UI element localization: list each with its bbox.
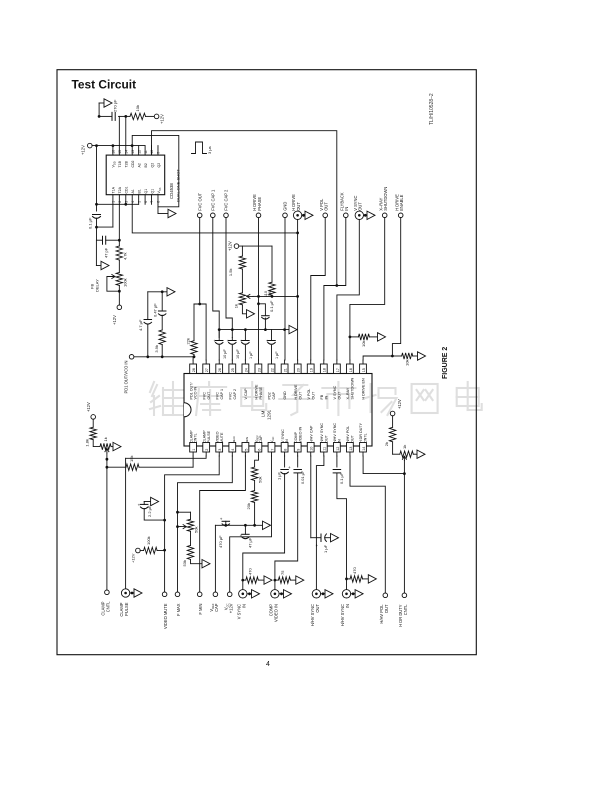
svg-text:OUT: OUT: [358, 202, 363, 211]
svg-text:CD4538: CD4538: [169, 183, 174, 199]
svg-text:5: 5: [244, 449, 248, 451]
svg-text:+12V: +12V: [81, 145, 86, 155]
svg-text:6: 6: [257, 449, 261, 451]
svg-text:4: 4: [231, 449, 235, 451]
svg-text:1 μF: 1 μF: [323, 544, 328, 553]
svg-text:H/HV SYNC: H/HV SYNC: [320, 423, 324, 443]
svg-text:470 μF: 470 μF: [218, 535, 223, 548]
svg-text:FVC CAP 2: FVC CAP 2: [224, 189, 229, 211]
terminal H/HV SYNC OUT: [312, 590, 320, 598]
svg-text:25: 25: [231, 368, 235, 372]
svg-text:OUT: OUT: [337, 391, 341, 400]
svg-text:3.9k: 3.9k: [154, 345, 159, 353]
probe triangle (timing node): [98, 103, 100, 116]
wire pin 9 COMP VIDEO IN upper: [297, 456, 299, 467]
capacitor 0.1 uF (H/HV SYNC IN): [333, 469, 341, 471]
wire H DRIVE OUT to pin 20: [297, 220, 299, 361]
svg-text:FVC OUT: FVC OUT: [197, 192, 202, 210]
svg-text:10k: 10k: [135, 105, 140, 111]
pulse waveform 3 us: [192, 142, 207, 154]
terminal X–RAY SHUTDOWN: [382, 213, 387, 218]
svg-text:1 μF: 1 μF: [275, 351, 279, 359]
wire CD4538 pin 2 to 47pF node: [118, 204, 120, 240]
capacitor 10 uF (pin 25): [231, 338, 233, 341]
wire clamp wiper node: [106, 459, 108, 467]
svg-text:+: +: [214, 339, 217, 344]
svg-text:13: 13: [131, 150, 135, 154]
figure border frame: [57, 70, 476, 655]
svg-text:24: 24: [244, 368, 248, 372]
svg-text:0.1 μF: 0.1 μF: [269, 300, 274, 312]
resistor 15k: [107, 466, 126, 468]
svg-text:OUT: OUT: [384, 604, 389, 613]
terminal VREF CAP: [213, 592, 218, 597]
svg-text:CNTL: CNTL: [106, 601, 111, 612]
svg-text:V CAP: V CAP: [244, 388, 248, 400]
svg-text:20k: 20k: [246, 503, 251, 509]
svg-text:CNTL: CNTL: [403, 604, 408, 615]
svg-text:FVC CAP 1: FVC CAP 1: [210, 189, 215, 211]
svg-text:0.1 μF: 0.1 μF: [88, 217, 93, 229]
svg-text:3: 3: [218, 449, 222, 451]
svg-text:3: 3: [124, 201, 128, 203]
potentiometer 50k (F MAX): [178, 511, 191, 513]
svg-text:CAP: CAP: [272, 391, 276, 399]
terminal CLAMP CNTL: [105, 590, 110, 595]
wire X-RAY SHUTDOWN to pin 16: [350, 218, 385, 360]
resistor 50k (VREF): [251, 467, 257, 480]
terminal V POL OUT: [323, 213, 328, 218]
svg-text:100k: 100k: [123, 278, 128, 287]
terminal VIDEO MUTE: [162, 592, 167, 597]
terminal +12V (duty network): [390, 411, 395, 416]
IC U1 notch: [184, 403, 191, 417]
svg-text:10k: 10k: [361, 341, 366, 347]
svg-text:4.7k: 4.7k: [123, 252, 128, 260]
svg-text:11: 11: [144, 150, 148, 154]
wire +12V rail to CD4538 supply pins: [92, 145, 145, 147]
wire pin 2 to CLAMP PULSE: [126, 456, 207, 458]
svg-text:CD1: CD1: [125, 186, 129, 193]
resistor 75 (comp video): [275, 579, 279, 581]
svg-text:1k: 1k: [234, 304, 239, 308]
wire FVC CAP 1 to pin 26: [213, 218, 219, 338]
svg-text:FB: FB: [320, 394, 324, 399]
svg-text:FVC: FVC: [202, 392, 206, 400]
terminal +12V (clamp): [91, 415, 96, 420]
svg-text:18: 18: [323, 368, 327, 372]
svg-text:H DR DUTY: H DR DUTY: [359, 422, 363, 443]
svg-text:1 μF: 1 μF: [277, 472, 282, 480]
svg-text:100k: 100k: [146, 536, 151, 545]
terminal FLYBACK IN: [344, 213, 349, 218]
svg-text:10: 10: [150, 150, 154, 154]
svg-text:+: +: [288, 465, 291, 470]
wire loop filter top node: [148, 291, 167, 293]
capacitor 4.7 uF: [147, 324, 149, 357]
svg-text:ENABLE: ENABLE: [399, 194, 404, 210]
svg-text:H DRIVE: H DRIVE: [255, 384, 259, 399]
terminal H/HV POL OUT: [383, 593, 388, 598]
svg-text:10 μF: 10 μF: [223, 349, 227, 359]
svg-text:22k: 22k: [185, 338, 190, 344]
capacitor 0.01 uF (comp video): [294, 469, 302, 471]
svg-text:8: 8: [157, 201, 161, 203]
probe triangle (video mute): [151, 497, 159, 505]
svg-text:V SYNC: V SYNC: [281, 429, 285, 443]
svg-text:H/HV SYNC: H/HV SYNC: [333, 423, 337, 443]
IC U1 top pin boxes 28..15: [190, 364, 197, 374]
potentiometer 1k (phase): [239, 293, 245, 305]
svg-text:50k: 50k: [194, 527, 199, 533]
wire pin 11 H/HV SYNC OUT: [316, 456, 324, 590]
svg-text:+: +: [227, 339, 230, 344]
svg-text:1: 1: [112, 201, 116, 203]
svg-text:4.7 μF: 4.7 μF: [138, 319, 143, 331]
terminal CLAMP PULSE: [121, 589, 129, 597]
wire pin 1 to clamp network: [192, 456, 194, 467]
svg-text:F MAX: F MAX: [176, 603, 181, 616]
svg-text:9: 9: [157, 152, 161, 154]
resistor 10k (H DRIVE EN probe): [392, 355, 401, 357]
svg-text:470: 470: [248, 568, 253, 575]
wire pin27/22k junction: [194, 304, 206, 360]
svg-text:IN: IN: [285, 439, 289, 443]
svg-text:Q2: Q2: [157, 163, 161, 168]
wire decoupling bus: [219, 329, 289, 331]
terminal GND: [283, 213, 288, 218]
svg-text:28: 28: [192, 368, 196, 372]
svg-text:1.5k: 1.5k: [228, 269, 233, 277]
wire clamp cntl down: [106, 467, 108, 590]
resistor 53k: [190, 531, 192, 545]
IC U1 bottom pin boxes 1..14: [190, 443, 197, 453]
terminal COMP VIDEO IN: [271, 590, 279, 598]
svg-text:IN: IN: [337, 439, 341, 443]
capacitor 470 uF: [225, 521, 227, 525]
potentiometer 1k (duty): [393, 453, 400, 455]
svg-text:4: 4: [266, 661, 270, 668]
svg-text:15k: 15k: [129, 456, 134, 462]
svg-text:H DRIVE: H DRIVE: [294, 384, 298, 399]
probe triangle (phase pot): [247, 310, 255, 318]
svg-text:A2: A2: [137, 163, 141, 167]
svg-text:8: 8: [283, 449, 287, 451]
terminal H DRIVE ENABLE: [398, 213, 403, 218]
svg-text:3 μs: 3 μs: [207, 146, 212, 154]
probe triangle (H DRIVE OUT): [302, 214, 305, 216]
probe triangle (COMP VIDEO IN): [279, 593, 283, 595]
wire pin 13 H/HV POL OUT: [350, 456, 385, 593]
svg-text:PD1 OUT/: PD1 OUT/: [189, 382, 193, 400]
svg-text:TL/H/10528–2: TL/H/10528–2: [429, 93, 435, 125]
svg-text:T2A: T2A: [118, 186, 122, 193]
svg-text:12: 12: [137, 150, 141, 154]
svg-text:+12V: +12V: [228, 603, 233, 613]
probe triangle (CLAMP PULSE): [130, 592, 134, 594]
svg-text:FIGURE 2: FIGURE 2: [442, 347, 449, 379]
svg-text:22: 22: [270, 368, 274, 372]
capacitor 0.1 uF (phase): [257, 302, 260, 305]
svg-text:7: 7: [270, 449, 274, 451]
wire phase node: [259, 295, 298, 297]
svg-text:+12V: +12V: [86, 402, 91, 412]
terminal F MIN: [197, 592, 202, 597]
svg-text:53k: 53k: [182, 560, 187, 566]
svg-text:0.1 μF: 0.1 μF: [339, 472, 344, 484]
svg-text:1291: 1291: [267, 409, 272, 420]
IC U2 bottom pin leads 1-8: [112, 195, 114, 205]
potentiometer 100k FB DELAY: [116, 272, 122, 285]
svg-text:23: 23: [257, 368, 261, 372]
svg-text:CNTL: CNTL: [194, 433, 198, 443]
capacitor 1 uF (H/HV CAP): [320, 534, 322, 542]
svg-text:OUT: OUT: [207, 391, 211, 400]
svg-text:PULSE: PULSE: [124, 602, 129, 616]
wire CD4538 pin4 delayed output: [132, 204, 297, 233]
probe triangle (left rail): [101, 261, 109, 269]
svg-text:COMP: COMP: [294, 431, 298, 443]
capacitor 47 pF: [102, 236, 104, 244]
svg-text:10 μF: 10 μF: [236, 349, 240, 359]
svg-text:X–RAY: X–RAY: [346, 387, 350, 399]
resistor 470 (V SYNC IN): [243, 579, 246, 581]
svg-text:OUT: OUT: [324, 202, 329, 211]
svg-text:27: 27: [205, 368, 209, 372]
svg-text:Q2: Q2: [150, 163, 154, 168]
terminal +12V (phase network): [234, 244, 239, 249]
svg-text:14: 14: [362, 447, 366, 451]
terminal +12V (top left): [88, 143, 93, 148]
capacitor 2.2 uF (video mute): [144, 508, 164, 520]
svg-text:VIDEO MUTE: VIDEO MUTE: [163, 603, 168, 629]
svg-text:GND: GND: [283, 391, 287, 400]
wire H DRIVE ENABLE to pin 15: [363, 218, 401, 360]
svg-text:SHUTDOWN: SHUTDOWN: [383, 187, 388, 211]
svg-text:14: 14: [124, 150, 128, 154]
svg-text:MUTE: MUTE: [220, 432, 224, 443]
terminal FVC OUT: [197, 213, 202, 218]
svg-text:15: 15: [118, 150, 122, 154]
svg-text:9: 9: [297, 449, 301, 451]
wire VSS to probe: [157, 204, 159, 213]
wire pin 8 V SYNC IN upper: [284, 456, 286, 467]
svg-text:CAP: CAP: [259, 435, 263, 443]
wire V SYNC OUT to pin 17: [337, 220, 359, 361]
svg-text:1.8k: 1.8k: [85, 439, 90, 447]
probe triangle (V SYNC OUT): [364, 214, 368, 216]
terminal FVC CAP 1: [211, 213, 216, 218]
svg-text:FVC: FVC: [229, 392, 233, 400]
wire FVC CAP 2 to pin 25: [226, 218, 232, 338]
svg-text:H DRIVE EN: H DRIVE EN: [362, 378, 366, 399]
wire timing top node: [99, 115, 112, 117]
svg-text:+: +: [138, 502, 141, 507]
wire branch to CD4538 pin 1: [97, 226, 113, 228]
probe triangle (V SYNC 470): [264, 576, 272, 584]
svg-text:VIDEO IN: VIDEO IN: [274, 604, 279, 622]
svg-text:V POL: V POL: [307, 389, 311, 400]
terminal H DR DUTY CNTL: [402, 593, 407, 598]
svg-text:Test Circuit: Test Circuit: [72, 78, 137, 92]
svg-text:A1: A1: [131, 189, 135, 193]
probe triangle (H/HV SYNC OUT): [321, 593, 325, 595]
probe triangle (H DRIVE EN): [418, 352, 426, 360]
wire riser pin14 to 270pF node: [125, 116, 127, 145]
svg-text:2k: 2k: [384, 442, 389, 446]
IC U2 CD4538 body: [106, 155, 165, 195]
wire VCO net: [134, 356, 193, 358]
svg-text:CAP 2: CAP 2: [233, 389, 237, 400]
svg-text:PULSE: PULSE: [207, 430, 211, 443]
wire pot bottom to probe: [242, 305, 246, 314]
svg-text:4: 4: [131, 201, 135, 203]
probe triangle (H/HV SYNC IN): [351, 593, 355, 595]
svg-text:B2: B2: [144, 163, 148, 167]
svg-text:1 μF: 1 μF: [249, 351, 253, 359]
svg-text:470: 470: [352, 567, 357, 574]
terminal VCC +12V: [227, 592, 232, 597]
terminal H/HV SYNC IN: [342, 590, 350, 598]
svg-text:+12V: +12V: [131, 553, 136, 563]
svg-text:19: 19: [310, 368, 314, 372]
svg-text:0.01 μF: 0.01 μF: [300, 470, 305, 484]
capacitor 0.47 uF: [161, 292, 163, 311]
svg-text:IN: IN: [345, 604, 350, 608]
terminal H DRIVE PHASE: [256, 213, 261, 218]
svg-text:26: 26: [218, 368, 222, 372]
svg-text:15: 15: [362, 368, 366, 372]
wire FB line from CD4538 Q2 to FB IN net: [152, 131, 337, 286]
svg-text:V SYNC: V SYNC: [333, 385, 337, 399]
svg-text:+: +: [220, 517, 223, 522]
probe triangle (one-shot output): [168, 209, 176, 217]
capacitor 0.1 uF (left rail): [93, 214, 101, 216]
svg-text:OUT: OUT: [315, 604, 320, 613]
svg-text:OUT: OUT: [324, 434, 328, 443]
svg-text:IN: IN: [324, 395, 328, 399]
resistor 10k (to +12V): [130, 113, 146, 119]
svg-text:0.47 μF: 0.47 μF: [153, 303, 158, 317]
probe triangle (comp video 75): [296, 576, 304, 584]
resistor 10k (X-RAY probe): [349, 336, 352, 339]
svg-text:10k: 10k: [405, 360, 410, 366]
svg-text:CAP 1: CAP 1: [220, 389, 224, 400]
capacitor 10 uF (pin 26): [218, 330, 220, 341]
resistor 110 2W: [271, 246, 273, 282]
potentiometer 1k (clamp): [93, 440, 100, 447]
svg-text:VIDEO IN: VIDEO IN: [298, 426, 302, 443]
resistor 1.8k: [92, 419, 94, 427]
svg-text:DUAL ONE-SHOT: DUAL ONE-SHOT: [176, 169, 181, 202]
wire VREF down: [214, 525, 216, 592]
svg-text:+12V: +12V: [112, 315, 117, 325]
wire pin 5 to F MIN: [200, 456, 246, 592]
watermark: [150, 382, 482, 415]
svg-text:+12V: +12V: [228, 241, 233, 251]
svg-text:CAP: CAP: [214, 603, 219, 612]
probe triangle (VREF): [263, 521, 271, 529]
IC U2 top pin leads 16-9: [112, 146, 114, 156]
svg-text:VIDEO: VIDEO: [215, 431, 219, 443]
svg-text:H/HV CAP: H/HV CAP: [309, 425, 313, 443]
svg-text:47 μF: 47 μF: [248, 537, 253, 548]
svg-text:CNTL: CNTL: [364, 433, 368, 443]
svg-text:B1: B1: [137, 189, 141, 193]
resistor 3.9k: [159, 330, 165, 345]
wire pin 7 VCC: [230, 456, 272, 592]
svg-text:PHASE: PHASE: [257, 197, 262, 211]
wire 47pF branch: [97, 239, 103, 241]
probe triangle (bus): [289, 325, 297, 333]
IC U1 top pin leads: [192, 360, 194, 364]
wire pin 10 H/HV CAP: [310, 456, 312, 538]
svg-text:OUT: OUT: [311, 391, 315, 400]
wire left rail to probe: [95, 240, 97, 265]
svg-text:Q1: Q1: [150, 189, 154, 194]
resistor 20k (VREF): [251, 491, 257, 503]
svg-text:IN: IN: [344, 207, 349, 211]
svg-text:OUT: OUT: [351, 434, 355, 443]
svg-text:50k: 50k: [258, 477, 263, 483]
svg-text:17: 17: [336, 368, 340, 372]
svg-text:13: 13: [349, 447, 353, 451]
svg-text:75: 75: [280, 570, 285, 575]
svg-text:Q1: Q1: [144, 189, 148, 194]
wire CD4538 loop (pin13 around right side): [132, 135, 179, 206]
svg-text:PD1 OUT/VCO IN: PD1 OUT/VCO IN: [124, 360, 129, 393]
svg-text:FVC: FVC: [215, 392, 219, 400]
svg-text:+12V: +12V: [397, 399, 402, 409]
svg-text:OUT: OUT: [296, 202, 301, 211]
IC U1 LM1291 body: [184, 374, 372, 447]
wire H DRIVE PHASE to pin 23: [258, 218, 260, 360]
terminal +12V (FB delay): [117, 305, 122, 310]
wire pin 14 H DR DUTY: [363, 456, 404, 474]
capacitor 1 uF (pin 24 V CAP): [244, 330, 246, 341]
svg-text:1k: 1k: [103, 437, 108, 441]
resistor 4.7k: [118, 240, 120, 246]
svg-text:T1A: T1A: [112, 186, 116, 193]
probe triangle (clamp pot): [113, 442, 121, 450]
svg-text:CLAMP: CLAMP: [189, 430, 193, 443]
wire FLYBACK IN to pin 18: [324, 218, 346, 360]
svg-text:11: 11: [323, 447, 327, 451]
svg-text:16: 16: [112, 150, 116, 154]
svg-text:2: 2: [205, 449, 209, 451]
probe triangle (H/HV 470): [368, 575, 376, 583]
svg-text:270 pF: 270 pF: [113, 99, 118, 112]
svg-text:CD2: CD2: [131, 160, 135, 167]
svg-text:SHUTDOWN: SHUTDOWN: [351, 377, 355, 399]
capacitor 270 pF: [111, 112, 113, 120]
svg-text:+: +: [240, 339, 243, 344]
wire branch to CD4538 pin 3 CD1: [97, 203, 139, 205]
wire pin 12 upper: [336, 456, 338, 467]
probe triangle (X-RAY): [378, 333, 386, 341]
wire VREF cap bus: [215, 524, 262, 526]
svg-text:OUT: OUT: [298, 391, 302, 400]
wire pot to +12V: [118, 285, 120, 305]
resistor 1.5k: [239, 256, 245, 269]
svg-text:PHASE: PHASE: [259, 386, 263, 399]
capacitor 47 uF: [244, 525, 246, 534]
wire pin 4 to F MAX: [178, 456, 233, 592]
capacitor 1 uF (pin 22 PD2 CAP): [271, 330, 273, 341]
svg-text:1: 1: [192, 449, 196, 451]
wire +12V phase rail: [239, 245, 272, 247]
terminal V SYNC IN: [239, 590, 247, 598]
